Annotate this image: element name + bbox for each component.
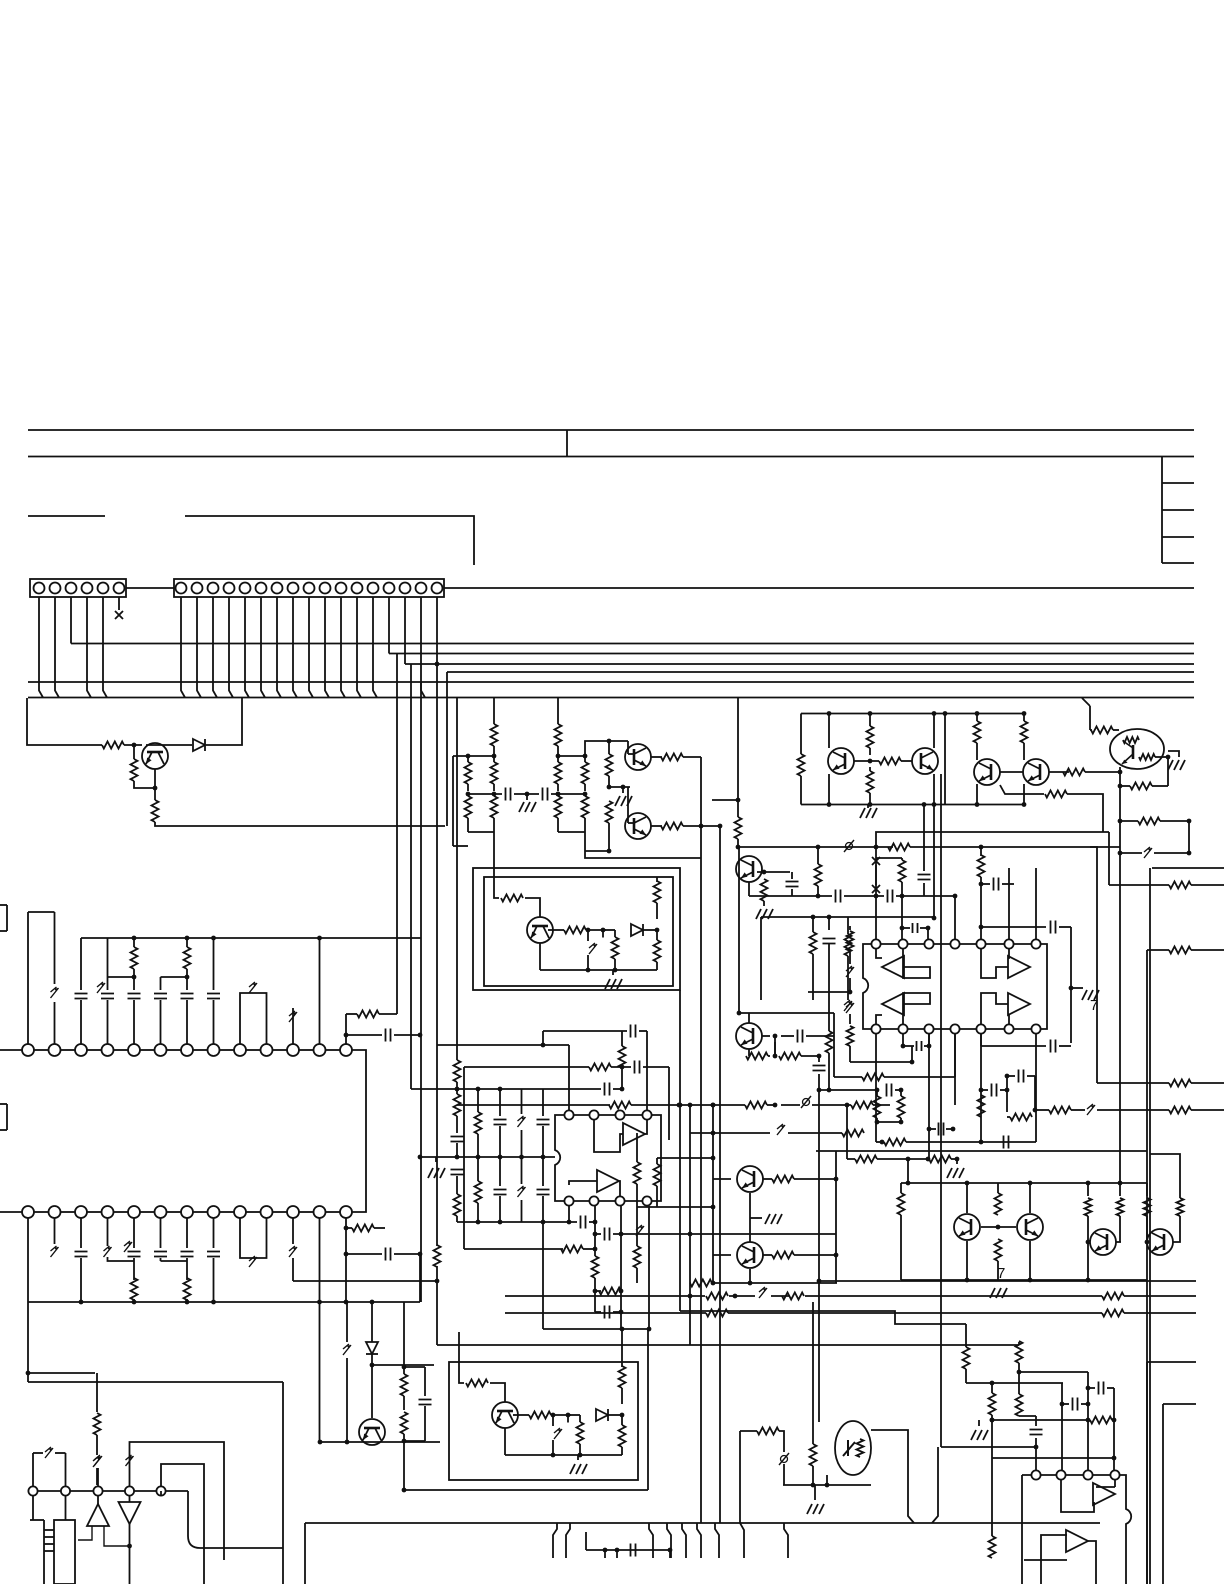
wire — [1007, 1075, 1015, 1077]
capacitor — [419, 1400, 432, 1405]
junction — [583, 754, 588, 759]
junction — [996, 1225, 1001, 1230]
junction — [927, 1127, 932, 1132]
transistor Q16 — [1147, 1229, 1173, 1255]
wire — [160, 977, 162, 990]
wire — [828, 917, 830, 930]
resistor — [357, 1011, 379, 1018]
transistor Q2 — [625, 744, 651, 770]
wire — [817, 886, 819, 896]
wire — [514, 793, 539, 795]
junction — [834, 1177, 839, 1182]
wire — [542, 1222, 544, 1329]
wire — [643, 1066, 669, 1068]
junction — [344, 1300, 349, 1305]
wire — [771, 1295, 790, 1297]
wire connector pin drop — [103, 597, 107, 698]
resistor divider — [491, 762, 498, 784]
junction — [668, 1548, 673, 1553]
wire rail 1105b — [631, 1104, 745, 1106]
wire — [557, 818, 559, 832]
wire — [656, 1186, 658, 1207]
resistor — [491, 724, 498, 746]
wire connector pin drop — [309, 597, 313, 698]
junction — [965, 1278, 970, 1283]
junction — [498, 1220, 503, 1225]
wire — [584, 756, 586, 762]
wire — [372, 1364, 434, 1366]
wire — [107, 938, 109, 990]
wire pin2 drop — [1061, 1383, 1063, 1470]
resistor — [963, 1347, 970, 1369]
wire row1 link — [167, 1049, 182, 1051]
junction — [922, 802, 927, 807]
junction — [578, 1453, 583, 1458]
wire — [557, 746, 559, 756]
wire mid rail right — [910, 846, 1120, 848]
wire — [133, 1218, 135, 1248]
capacitor — [786, 882, 799, 887]
resistor — [599, 1288, 621, 1295]
junction — [455, 1087, 460, 1092]
wire — [1034, 1076, 1036, 1110]
connector J2 pin 2 — [192, 583, 203, 594]
wire vertical E — [446, 672, 448, 826]
resistor — [619, 1425, 626, 1447]
connector J2 pin 16 — [416, 583, 427, 594]
wire — [96, 1468, 98, 1485]
U3 bottom pin 7 — [589, 1196, 598, 1205]
wire — [712, 1282, 837, 1284]
wire — [933, 774, 935, 805]
wire rail 1345 — [437, 1344, 1019, 1346]
wire — [616, 1550, 618, 1558]
capacitor — [823, 939, 836, 944]
wire connector pin drop — [341, 597, 345, 698]
wire — [849, 1046, 851, 1062]
wire loop — [240, 993, 267, 1044]
resistor — [1169, 1080, 1191, 1087]
wire — [621, 1447, 623, 1455]
wire emitter bus — [155, 822, 445, 826]
connector J2 pin 12 — [352, 583, 363, 594]
wire — [542, 1196, 544, 1222]
junction — [748, 1281, 753, 1286]
wire — [499, 1157, 501, 1186]
wire row2 link — [326, 1211, 341, 1213]
bus line 1 — [71, 643, 1194, 645]
capacitor — [128, 1252, 141, 1257]
wire — [737, 839, 739, 847]
wire — [551, 1414, 571, 1416]
wire — [1067, 794, 1103, 832]
wire — [768, 1055, 770, 1057]
wire bracket — [352, 1050, 366, 1212]
ground — [615, 796, 632, 806]
connector J2 pin 7 — [272, 583, 283, 594]
wire box right inner side — [1162, 1404, 1164, 1584]
wire — [371, 1302, 373, 1342]
wire — [584, 818, 586, 832]
junction — [79, 1300, 84, 1305]
resistor — [606, 754, 613, 776]
junction — [990, 1381, 995, 1386]
wire U1 pin drop — [1035, 1034, 1037, 1142]
wire — [403, 1434, 405, 1441]
resistor base — [102, 742, 124, 749]
transistor Q12 — [737, 1242, 763, 1268]
junction — [990, 1418, 995, 1423]
wire — [1120, 820, 1138, 822]
wire — [403, 1396, 405, 1410]
capacitor — [75, 1252, 88, 1257]
trimmer — [94, 1455, 102, 1466]
wire — [319, 938, 321, 1044]
wire connector pin drop — [229, 597, 233, 698]
wire — [403, 1441, 405, 1490]
capacitor — [154, 1252, 167, 1257]
wire connector pin drop — [197, 597, 201, 698]
ground — [1082, 990, 1099, 1000]
trimmer — [51, 1246, 59, 1257]
junction — [975, 711, 980, 716]
wire edge stub — [0, 930, 7, 932]
wire — [456, 1082, 458, 1089]
wire base Q11 — [713, 1178, 731, 1180]
junction — [1086, 1181, 1091, 1186]
wire to base — [490, 1383, 505, 1402]
wire pin to bus B3b — [436, 597, 438, 664]
capacitor — [1030, 1430, 1043, 1435]
wire — [403, 1302, 405, 1374]
wire emitter Q4 — [748, 882, 750, 896]
wire — [781, 1104, 800, 1106]
wire — [1090, 847, 1097, 1083]
junction — [677, 1103, 682, 1108]
wire — [1160, 820, 1189, 822]
capacitor — [1019, 1070, 1024, 1083]
wire — [493, 784, 495, 791]
wire vertical A — [396, 654, 398, 1015]
junction emitter — [153, 786, 158, 791]
wire — [595, 1311, 601, 1313]
resistor divider — [465, 796, 472, 818]
resistor — [772, 1176, 794, 1183]
op-amp IC U4 outline — [1022, 1475, 1131, 1584]
capacitor — [386, 1248, 391, 1261]
junction — [476, 1087, 481, 1092]
capacitor small — [917, 1041, 922, 1051]
capacitor small — [913, 923, 918, 933]
resistor — [577, 1422, 584, 1444]
wire — [586, 1549, 670, 1551]
junction base — [132, 743, 137, 748]
wire vertical x701 — [700, 858, 702, 1523]
junction — [1005, 1074, 1010, 1079]
wire base Q12 — [713, 1254, 731, 1256]
wire — [1018, 1415, 1020, 1417]
wire rail bottom right — [558, 831, 585, 833]
wire — [1018, 1363, 1020, 1372]
junction — [990, 1418, 995, 1423]
wire — [477, 1134, 479, 1157]
wire — [1087, 1216, 1089, 1280]
wire — [1085, 771, 1120, 773]
capacitor — [451, 1170, 464, 1175]
wire — [1040, 1553, 1042, 1584]
wire — [521, 1157, 523, 1184]
wire row1 link — [34, 1049, 49, 1051]
wire bottom frame — [585, 850, 609, 852]
wire — [656, 962, 658, 970]
wire — [1097, 1109, 1169, 1111]
wire — [499, 1196, 501, 1222]
wire — [161, 1464, 204, 1584]
wire — [54, 912, 56, 984]
resistor — [851, 1102, 873, 1109]
wire — [774, 1036, 776, 1056]
junction — [541, 1043, 546, 1048]
trimmer — [51, 987, 59, 998]
capacitor — [181, 994, 194, 999]
wire — [867, 805, 869, 809]
junction — [678, 1103, 683, 1108]
U4 pin 4 — [1110, 1470, 1119, 1479]
junction — [418, 1033, 423, 1038]
wire — [875, 865, 877, 885]
wire — [371, 1354, 373, 1365]
capacitor — [887, 1084, 892, 1097]
U4 pin 3 — [1083, 1470, 1092, 1479]
wire — [54, 1002, 56, 1044]
ground — [947, 1168, 964, 1178]
resistor — [401, 1412, 408, 1434]
resistor — [1010, 1114, 1032, 1121]
junction — [910, 1060, 915, 1065]
variable mark — [872, 885, 880, 893]
wire — [614, 930, 616, 937]
resistor — [1144, 1198, 1151, 1216]
wire — [743, 1055, 745, 1057]
regulator sub-circuit box — [484, 877, 673, 986]
wire — [980, 877, 982, 939]
wire — [411, 1088, 457, 1090]
wire — [619, 1290, 621, 1292]
U1 bottom pin 8 — [1031, 1024, 1040, 1033]
junction — [900, 894, 905, 899]
wire — [656, 903, 658, 919]
wire — [133, 938, 135, 947]
wire vertical x720 — [719, 826, 721, 1523]
wire — [901, 882, 903, 940]
wire — [1023, 743, 1025, 760]
wire — [835, 1151, 837, 1283]
wire — [800, 776, 802, 805]
wire — [346, 1034, 382, 1036]
wire — [97, 1496, 99, 1504]
wire collector — [748, 1013, 750, 1023]
wire — [876, 1141, 884, 1143]
wire — [951, 1158, 957, 1160]
resistor — [757, 1428, 779, 1435]
wire drop — [715, 1523, 719, 1558]
resistor — [1123, 737, 1139, 743]
junction — [603, 1548, 608, 1553]
capacitor — [494, 1190, 507, 1195]
wire — [854, 760, 879, 762]
wire — [869, 714, 871, 727]
resistor — [1169, 882, 1191, 889]
resistor — [454, 1194, 461, 1216]
junction — [1112, 1418, 1117, 1423]
wire base — [762, 1035, 770, 1037]
wire — [97, 1468, 99, 1486]
junction — [619, 1310, 624, 1315]
connector J2 pin 17 — [432, 583, 443, 594]
trimmer — [289, 1246, 297, 1257]
junction — [773, 1103, 778, 1108]
wire oval out — [1155, 756, 1168, 758]
resistor — [815, 864, 822, 886]
junction — [1187, 851, 1192, 856]
wire connector pin drop — [261, 597, 265, 698]
wire — [613, 1233, 836, 1235]
wire long 1151 — [816, 1150, 1147, 1152]
wire vertical x680 — [679, 990, 681, 1311]
wire — [604, 1550, 606, 1558]
wire — [781, 1035, 794, 1037]
junction — [370, 1363, 375, 1368]
junction — [593, 1289, 598, 1294]
wire row2 link — [299, 1211, 314, 1213]
capacitor — [207, 1252, 220, 1257]
wire — [1173, 1216, 1180, 1242]
wire — [812, 1104, 851, 1106]
wire — [603, 929, 615, 931]
terminal strip row 2 — [22, 1206, 352, 1218]
wire — [477, 1089, 479, 1112]
wire row1 link — [61, 1049, 76, 1051]
resistor divider — [465, 762, 472, 784]
wire — [557, 756, 559, 762]
junction — [1187, 819, 1192, 824]
wire — [876, 857, 902, 859]
wire — [760, 917, 762, 1000]
resistor — [989, 1393, 996, 1415]
wire drop — [740, 1523, 744, 1558]
wire — [456, 1116, 458, 1133]
wire vertical x283 — [282, 1382, 284, 1584]
wire — [849, 926, 851, 930]
wire — [812, 954, 814, 1000]
wire — [27, 1302, 29, 1382]
wire — [394, 1034, 420, 1036]
resistor — [735, 817, 742, 839]
capacitor — [181, 1252, 194, 1257]
wire — [877, 1121, 901, 1123]
wire connector pin drop — [277, 597, 281, 698]
resistor — [974, 721, 981, 743]
wire diode to bus — [206, 698, 242, 746]
wire ladder col top — [456, 698, 458, 1061]
wire gnd — [612, 970, 614, 975]
wire — [65, 1496, 67, 1520]
wire — [614, 959, 616, 970]
wire — [1008, 868, 1010, 939]
wire — [621, 1068, 623, 1089]
junction — [455, 1155, 460, 1160]
tick — [44, 1550, 54, 1552]
wire — [346, 1013, 357, 1015]
wire — [371, 1365, 373, 1418]
wire — [1146, 1183, 1148, 1196]
wire right exit 1110 — [1191, 1109, 1224, 1111]
junction — [132, 936, 137, 941]
wire row2 link — [34, 1211, 49, 1213]
wire vertical x464 — [463, 1067, 465, 1249]
junction — [567, 1220, 572, 1225]
junction — [762, 870, 767, 875]
wire — [28, 1372, 95, 1374]
U3 top pin 4 — [642, 1110, 651, 1119]
capacitor — [798, 1030, 803, 1043]
wire frame bottom — [585, 832, 701, 858]
wire — [956, 1159, 958, 1164]
transistor marks oval 2 — [843, 1440, 855, 1456]
wire connector pin drop — [55, 597, 59, 698]
wire — [1024, 1559, 1067, 1561]
junction — [593, 1220, 598, 1225]
wire — [552, 1440, 554, 1455]
wire — [130, 1442, 225, 1560]
resistor — [847, 1026, 854, 1046]
wire — [521, 1200, 523, 1222]
U3 top pin 2 — [589, 1110, 598, 1119]
wire U4b in — [1041, 1535, 1067, 1553]
junction — [1086, 1418, 1091, 1423]
wire — [505, 1312, 706, 1314]
resistor — [782, 1293, 804, 1300]
wire — [869, 748, 871, 755]
wire — [976, 714, 978, 722]
junction — [615, 1548, 620, 1553]
wire — [594, 1206, 596, 1256]
junction — [880, 1140, 885, 1145]
resistor — [1049, 1107, 1071, 1114]
wire top to Q2 — [585, 741, 628, 756]
connector J1 pin 2 — [50, 583, 61, 594]
wire box right inner top — [1163, 1403, 1196, 1405]
wire — [812, 1466, 814, 1485]
wire — [981, 1089, 988, 1091]
resistor — [978, 855, 985, 877]
wire box edge — [304, 1523, 306, 1584]
wire — [567, 1415, 569, 1422]
wire right exit 1083 — [1191, 1082, 1224, 1084]
junction — [1118, 851, 1123, 856]
junction — [1033, 1108, 1038, 1113]
wire base Q3 — [609, 786, 630, 788]
connector J1 pin 5 — [98, 583, 109, 594]
wire — [1097, 1082, 1169, 1084]
tick — [44, 1536, 54, 1538]
wire 1281 left — [293, 1280, 437, 1282]
wire — [108, 976, 135, 978]
junction — [874, 845, 879, 850]
junction — [619, 1289, 624, 1294]
junction — [975, 802, 980, 807]
wire — [869, 793, 871, 805]
